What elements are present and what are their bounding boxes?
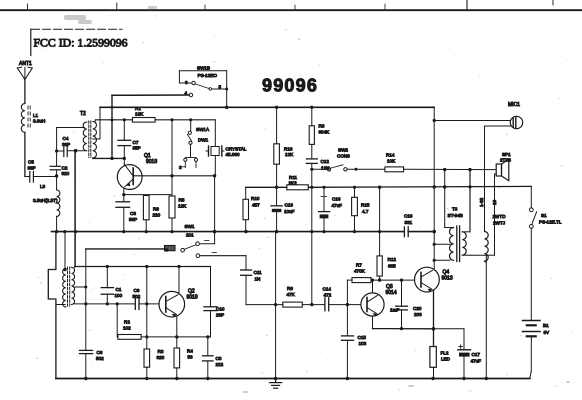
svg-text:47uF: 47uF <box>332 203 343 208</box>
wire mic top lead <box>434 120 510 122</box>
switch SW1-B PS-12EO box <box>179 66 228 108</box>
battery B1 9V <box>523 321 551 372</box>
svg-text:12K: 12K <box>178 204 187 209</box>
wire riser x112 line D to line A <box>111 95 113 158</box>
wire top rail corner down right vertical x=434.2 <box>433 107 435 269</box>
svg-text:C14: C14 <box>323 287 332 292</box>
resistor R11 2K2 in B+ line <box>287 175 309 190</box>
svg-text:C2: C2 <box>62 166 68 171</box>
wire top rail y107 <box>100 106 434 108</box>
switch SW1 DPDT pole and throws <box>86 241 246 258</box>
capacitor C5 36P <box>28 160 36 183</box>
wire SW1 pole riser x=85.8 <box>85 249 87 350</box>
wire L1 to C5 corner <box>24 132 26 176</box>
wire emitter bias line <box>124 194 172 196</box>
svg-text:CON8: CON8 <box>337 154 350 159</box>
wire line A to SW1B contact 4 <box>112 94 189 96</box>
svg-text:9018: 9018 <box>187 295 198 301</box>
wire T2 secondary bottom line D <box>93 157 125 159</box>
svg-text:SW1: SW1 <box>185 224 195 229</box>
svg-text:C15: C15 <box>358 335 367 340</box>
svg-text:685: 685 <box>388 264 396 269</box>
svg-text:R10: R10 <box>251 196 260 201</box>
resistor R14 10K <box>385 153 404 172</box>
svg-text:36P: 36P <box>28 166 36 171</box>
svg-text:12K: 12K <box>135 112 144 117</box>
svg-text:220: 220 <box>153 213 161 218</box>
resistor R7 470K <box>352 263 371 283</box>
svg-text:10uF: 10uF <box>284 209 295 214</box>
resistor R8 684K <box>309 107 330 144</box>
svg-text:470K: 470K <box>354 269 366 274</box>
transformer T3 ST-94B <box>445 170 470 262</box>
wire x=146.8 vertical <box>146 267 148 350</box>
svg-text:FCC ID: 1.2599096: FCC ID: 1.2599096 <box>34 35 128 49</box>
wire Q1 collector to line D <box>123 158 125 165</box>
resistor R9 220 <box>143 195 160 232</box>
svg-text:C16: C16 <box>332 197 341 202</box>
svg-text:R3: R3 <box>158 349 164 354</box>
wire C4 left lead <box>57 150 64 152</box>
wire Q4 emitter drop to FL2 <box>433 291 435 347</box>
svg-text:12K: 12K <box>285 152 294 157</box>
svg-text:9014: 9014 <box>386 290 397 296</box>
svg-text:C19: C19 <box>404 214 413 219</box>
svg-text:R6: R6 <box>287 286 293 291</box>
svg-text:PS-12E.TL: PS-12E.TL <box>539 220 562 225</box>
wire switched B+ line y=187 <box>246 186 287 188</box>
svg-text:C20: C20 <box>413 306 422 311</box>
svg-text:4: 4 <box>185 91 188 96</box>
border frame top line <box>0 9 582 11</box>
FCC ID label box <box>32 28 122 30</box>
wire T1 mid tap to SW1 pole riser <box>75 286 86 288</box>
switch S1 PS-12E.TL <box>529 186 562 320</box>
svg-text:10K: 10K <box>387 159 396 164</box>
capacitor C9 502 <box>133 288 141 309</box>
wire C5 to tank node <box>33 176 56 178</box>
wire riser x=347.4 and capacitor C15 103 <box>346 280 348 336</box>
switch SW2 CON8 <box>312 148 385 172</box>
wire Q4 emitter node to C17 <box>434 328 465 330</box>
svg-text:331: 331 <box>405 220 413 225</box>
svg-text:T3: T3 <box>452 207 458 212</box>
wire T3 primary center tap <box>434 243 450 245</box>
svg-text:47uF: 47uF <box>471 359 482 364</box>
svg-text:502: 502 <box>96 356 104 361</box>
svg-text:222: 222 <box>216 362 224 367</box>
svg-text:C5: C5 <box>28 160 34 165</box>
wire mid rail y=231.6 right part <box>408 231 434 233</box>
capacitor C6 502 <box>80 350 105 379</box>
svg-text:R9: R9 <box>153 207 159 212</box>
capacitor C1 100 <box>101 267 122 304</box>
wire mic-amp input line y=304.6 <box>246 304 283 306</box>
transformer T1 <box>63 267 75 307</box>
svg-text:99096: 99096 <box>262 76 318 96</box>
svg-text:820: 820 <box>62 171 70 176</box>
svg-text:45.860: 45.860 <box>226 152 240 157</box>
svg-text:102: 102 <box>123 326 131 331</box>
capacitor C14 472 <box>323 287 332 311</box>
capacitor C20 203 <box>390 280 422 329</box>
svg-text:C11: C11 <box>254 270 263 275</box>
wire speaker bottom lead <box>495 173 497 175</box>
svg-text:B1: B1 <box>543 323 549 328</box>
resistor R1 12K <box>132 106 155 122</box>
svg-text:203: 203 <box>414 312 422 317</box>
svg-text:T2: T2 <box>80 111 86 117</box>
svg-text:SP1: SP1 <box>502 152 511 157</box>
svg-text:C9: C9 <box>134 288 140 293</box>
svg-text:R13: R13 <box>284 147 293 152</box>
svg-text:56P: 56P <box>129 217 137 222</box>
ground symbol <box>270 379 282 389</box>
svg-text:35P: 35P <box>133 146 141 151</box>
wire x=275.6 down to ground <box>275 232 277 379</box>
capacitor C10 23P <box>204 267 225 337</box>
svg-text:23P: 23P <box>216 313 224 318</box>
wire mic bottom lead <box>485 125 512 127</box>
svg-text:47K: 47K <box>287 292 296 297</box>
svg-text:R5: R5 <box>179 198 185 203</box>
svg-text:R12: R12 <box>388 257 397 262</box>
wire Q2 base line y=303.9 <box>75 303 136 305</box>
svg-text:R1: R1 <box>135 106 141 111</box>
svg-text:R14: R14 <box>386 153 395 158</box>
speaker SP1 2T3B <box>496 152 511 181</box>
svg-text:3.9uH: 3.9uH <box>33 119 45 124</box>
wire T2 secondary mid tap riser to top rail <box>93 138 100 140</box>
svg-text:MIC1: MIC1 <box>508 102 520 108</box>
winding W1 2WTD <box>485 126 507 263</box>
svg-text:PS-12EO: PS-12EO <box>198 73 218 78</box>
svg-text:C17: C17 <box>472 352 481 357</box>
svg-text:CRYSTAL: CRYSTAL <box>226 147 247 152</box>
transformer T2 <box>80 111 96 158</box>
capacitor C19 331 series in rail <box>404 214 413 237</box>
wire L3 to mid rail <box>56 216 58 231</box>
svg-text:472: 472 <box>324 293 332 298</box>
transistor Q4 9013 <box>415 267 453 292</box>
wire Q2 collector riser <box>178 267 180 294</box>
svg-text:R11: R11 <box>289 175 298 180</box>
svg-text:C13: C13 <box>285 203 294 208</box>
svg-text:C7: C7 <box>133 140 139 145</box>
wire R14 to speaker <box>404 168 496 170</box>
capacitor C2 820 <box>50 166 69 177</box>
wire antenna to L1 <box>24 80 26 104</box>
wire C7 leads <box>123 120 125 141</box>
capacitor C12 12N <box>306 144 329 170</box>
svg-text:R4: R4 <box>187 349 193 354</box>
wire left rail with jog <box>48 232 56 379</box>
antenna ANT1 <box>17 61 32 80</box>
svg-text:C6: C6 <box>97 350 103 355</box>
wire T3 secondary top riser <box>469 170 471 232</box>
svg-text:ST-94B: ST-94B <box>448 213 463 218</box>
resistor R2 102 <box>117 304 141 339</box>
svg-text:S1: S1 <box>541 213 547 218</box>
svg-text:201: 201 <box>186 233 194 238</box>
svg-text:SW1B: SW1B <box>197 66 210 71</box>
svg-text:FL2: FL2 <box>441 351 449 356</box>
capacitor C7 35P <box>118 140 141 151</box>
wire emitter line y=336.9 <box>141 336 210 338</box>
wire T3 secondary bottom to ground rail <box>470 254 486 256</box>
wire T3 primary bottom tap <box>434 259 450 261</box>
wire osc tank line y=266.5 <box>75 266 211 268</box>
svg-text:684K: 684K <box>319 130 331 135</box>
svg-text:C8: C8 <box>216 356 222 361</box>
svg-text:DW1: DW1 <box>198 138 209 143</box>
svg-text:1N: 1N <box>255 277 261 282</box>
svg-text:R15: R15 <box>361 203 370 208</box>
svg-text:SW1A: SW1A <box>196 127 210 132</box>
svg-text:103: 103 <box>359 341 367 346</box>
svg-text:R2: R2 <box>124 320 130 325</box>
resistor R5 12K (osc emitter) <box>169 120 187 232</box>
svg-text:1-32: 1-32 <box>479 197 484 207</box>
svg-text:LED: LED <box>441 357 451 362</box>
svg-text:3.5uH(2.5T): 3.5uH(2.5T) <box>33 198 58 203</box>
crystal X1 45.860 <box>206 120 247 176</box>
svg-text:C1: C1 <box>116 287 122 292</box>
svg-text:C10: C10 <box>216 307 225 312</box>
transistor Q3 9014 <box>361 284 397 316</box>
wire T2 primary top tap <box>57 127 85 129</box>
svg-text:9013: 9013 <box>442 276 453 282</box>
resistor R12 685 <box>377 187 396 280</box>
wire Q1 base line to crystal <box>133 175 214 177</box>
wire mid rail y=231.6 left part <box>52 231 404 233</box>
diode FL2 LED <box>430 347 451 379</box>
svg-text:5: 5 <box>219 85 222 90</box>
inductor L3 <box>33 184 60 216</box>
capacitor C3 56P <box>116 202 137 222</box>
inductor L1 3.9uH <box>21 104 45 133</box>
wire T1 left winding bottom tap to left rail <box>56 304 65 306</box>
svg-text:SW2: SW2 <box>338 148 348 153</box>
resistor R6 47K <box>283 286 303 307</box>
wire Q1 emitter <box>123 189 125 202</box>
wire battery bottom corner to ground rail <box>530 371 532 379</box>
capacitor C4 36P <box>62 136 70 157</box>
wire heavy vertical C4 node down to T1 <box>74 151 76 267</box>
svg-text:3: 3 <box>179 165 182 170</box>
wire T1 right winding top tap to osc tank line <box>74 266 76 269</box>
wire crystal node down to SW1 throw <box>214 176 216 244</box>
resistor R4 56 <box>174 337 193 379</box>
wire C4 right lead to T2 primary bottom <box>67 150 85 152</box>
svg-text:823: 823 <box>157 355 165 360</box>
resistor R13 12K <box>274 107 294 187</box>
wire x=311.8 down from SW2 node <box>311 169 313 304</box>
svg-text:C12: C12 <box>321 159 330 164</box>
wire tank vertical <box>56 128 58 167</box>
svg-text:100: 100 <box>115 293 123 298</box>
wire line C (oscillator collector line) <box>95 119 132 121</box>
svg-text:9V: 9V <box>544 330 551 335</box>
resistor R10 457 <box>243 187 260 231</box>
wire T1 left winding top riser to rail <box>64 232 66 269</box>
wire emitter line to Q4 emitter node <box>373 328 434 330</box>
wire bottom ground rail <box>56 378 530 380</box>
svg-text:L1: L1 <box>33 113 39 118</box>
svg-text:1mF: 1mF <box>390 308 399 313</box>
capacitor C13 10uF electrolytic <box>271 187 295 231</box>
transistor Q1 9018 <box>117 153 157 189</box>
svg-text:C4: C4 <box>63 136 69 141</box>
svg-text:R7: R7 <box>356 263 362 268</box>
svg-text:C3: C3 <box>130 211 136 216</box>
svg-text:R8: R8 <box>319 124 325 129</box>
resistor R3 823 <box>144 349 165 379</box>
wire audio driver line y=280.1 <box>347 279 352 281</box>
svg-text:56: 56 <box>188 355 194 360</box>
svg-text:4.7: 4.7 <box>362 209 369 214</box>
wire Q3 collector riser <box>372 280 374 293</box>
microphone MIC1 <box>508 102 523 129</box>
capacitor C17 47uF electrolytic <box>458 345 481 379</box>
resistor R15 4.7 <box>352 187 370 231</box>
svg-text:L3: L3 <box>40 184 46 189</box>
wire Q3 emitter drop <box>372 316 374 329</box>
wire T2 secondary top to line C <box>95 120 97 122</box>
transistor Q2 9018 <box>159 289 198 318</box>
capacitor C11 1N <box>241 256 262 305</box>
wire Q2 emitter drop <box>176 316 178 337</box>
capacitor C8 222 <box>203 337 224 379</box>
node tank junction <box>55 174 58 177</box>
capacitor C16 47uF electrolytic <box>319 187 343 231</box>
svg-text:ANT1: ANT1 <box>19 61 32 67</box>
switch SW1-A <box>179 120 210 170</box>
